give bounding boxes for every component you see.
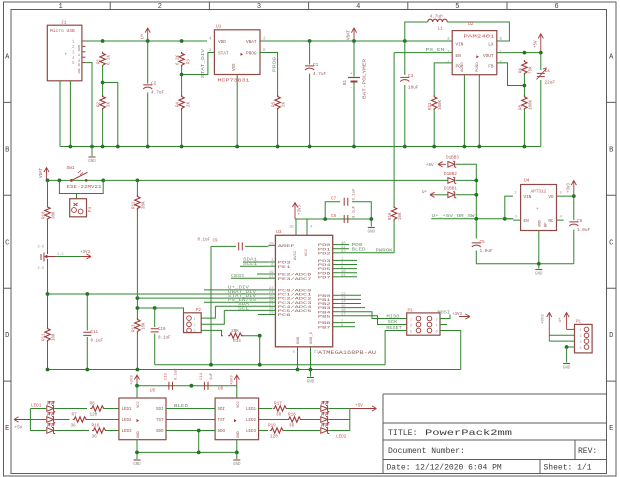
wire C11 top [86,294,88,331]
junction LED gnd right [235,451,239,455]
junction P4 left [58,179,62,183]
svg-text:1.0uF: 1.0uF [577,228,591,233]
wire P2 pin3 to R14 [201,330,223,335]
capacitor C5 1.0uF [472,243,481,247]
supply arrow U+ at P1 [564,313,569,330]
junction U4 GND [537,262,541,266]
junction VBAT/C1 [308,39,312,43]
svg-text:AVCC: AVCC [294,250,298,260]
capacitor C7 0.1uF [344,198,348,206]
svg-text:20K: 20K [231,329,239,334]
svg-text:+5V: +5V [426,164,434,168]
resistor R17 30 [273,406,288,411]
svg-text:1: 1 [194,318,196,322]
diode D1BB3 [448,161,456,167]
junction C10 top [153,306,157,310]
svg-text:BLED: BLED [174,403,188,409]
svg-text:+3V3: +3V3 [452,313,463,317]
svg-text:PE3/ADC7: PE3/ADC7 [278,277,313,282]
svg-text:LED2: LED2 [336,435,347,440]
wire J1 shield left to rail [59,81,61,147]
resistor R3 6.2K [179,52,184,67]
svg-text:22uF: 22uF [545,81,556,86]
svg-text:36: 36 [71,424,77,429]
wire UBAT_DIV long row [48,293,269,295]
svg-text:R1: R1 [98,58,102,64]
svg-text:GND: GND [237,430,241,438]
node VBAT supply arrow [351,28,356,41]
svg-text:MISO: MISO [387,313,400,319]
wire C4 top [540,53,542,70]
capacitor C14 1uF [204,382,208,390]
svg-text:VCC: VCC [137,400,141,408]
svg-text:R16: R16 [389,212,393,220]
wire C10 upper [154,308,156,327]
supply arrow +5V at diodes [438,162,446,167]
wire P4 bypass [59,180,103,193]
svg-text:VBAT: VBAT [348,29,352,40]
svg-text:+3V3: +3V3 [131,375,135,385]
wire LED2 to R7 [55,419,70,421]
junction busA AREF vert [209,363,213,367]
wire C3 bottom to rail [404,85,406,147]
wire C4 bottom to ground rail [540,80,542,147]
wire +3V3 LED rail [137,385,237,387]
svg-text:AGND: AGND [461,62,465,72]
svg-text:4: 4 [356,3,360,11]
wire PB5 to SCK [340,316,407,325]
junction P4 right [101,179,105,183]
wire AREF cap row [211,245,236,247]
LED D7 [321,417,329,423]
supply arrow +3V3 at LDO [571,181,576,197]
junction P1 gnd [565,345,569,349]
MCU U3 ATMEGA168PB-AU [275,235,332,346]
svg-text:VCC: VCC [237,400,241,408]
svg-text:LED3: LED3 [246,430,257,434]
junction VOUT/C4 [539,51,543,55]
svg-text:C9: C9 [213,240,219,244]
svg-text:+: + [536,207,539,212]
svg-text:2-S: 2-S [38,267,44,271]
wire SDO drop [198,431,200,453]
svg-text:0.1uF: 0.1uF [158,337,171,341]
junction C8 right [369,217,373,221]
svg-text:VIN: VIN [524,195,532,200]
junction R3/R4 node [180,73,184,77]
wire PD3-PD7 stubs [340,259,357,261]
wire T1 drain down [47,263,49,294]
wire P4 stub [76,194,78,199]
svg-text:PGND: PGND [476,62,480,72]
capacitor C6 1.0uF [569,222,578,226]
svg-text:D-: D- [78,52,81,56]
junction VBUS/R1 [101,39,105,43]
wire LED right bus [329,408,350,410]
wire LED row1 left [30,408,46,410]
svg-text:20: 20 [269,243,274,247]
svg-text:MOSI: MOSI [438,311,451,316]
wire PB6 stub [340,322,355,324]
svg-text:LX: LX [488,43,494,48]
supply arrow +5V right [350,406,377,411]
svg-text:100K: 100K [439,99,443,110]
wire AVCC stub [295,219,297,229]
supply arrow +3V3 at U6 [234,375,239,386]
svg-text:21: 21 [314,351,319,355]
svg-text:1: 1 [58,3,62,11]
diode D1BB2 [448,177,456,183]
svg-text:VIN: VIN [456,43,464,48]
resistor R4 2K [179,95,184,110]
wire node to C10 [137,307,154,309]
resistor R1 6.2K [100,52,105,67]
wire P3 pin6 to ground bus [440,331,461,370]
junction ground rail [116,145,120,149]
svg-text:36: 36 [92,435,98,440]
wire U4 GND down [538,231,540,264]
wire R5 to ground rail [277,109,279,147]
svg-text:D1BB1: D1BB1 [444,187,457,192]
wire U5-U6 row2 [166,419,215,421]
svg-text:C5: C5 [480,240,486,245]
svg-text:LED2: LED2 [122,419,133,423]
wire U2 FB to divider [497,63,525,86]
junction ground rail [276,145,280,149]
wire U6 VCC stub [236,386,238,398]
wire R17 to LED [287,408,320,410]
resistor R21 100K [432,95,437,110]
resistor R11 10K [45,327,50,342]
svg-text:R11: R11 [43,333,47,341]
svg-text:SW1: SW1 [67,166,75,171]
svg-text:+5V: +5V [355,403,363,408]
resistor R16 10K [391,206,396,221]
svg-text:D: D [5,332,9,340]
resistor R5 2K [275,95,280,110]
wire D1BB1 out [456,194,476,196]
junction ground rail [69,145,73,149]
wire R15 to U5 [106,430,119,432]
junction VBUS/C2 [146,39,150,43]
svg-text:75K: 75K [530,66,534,74]
svg-text:6.2K: 6.2K [108,54,112,65]
svg-text:Date: 12/12/2020 6:04 PM: Date: 12/12/2020 6:04 PM [387,464,502,473]
resistor R6 75K [522,60,527,75]
wire B1 top [353,41,355,77]
svg-text:E: E [5,425,9,433]
svg-text:P3: P3 [408,309,414,313]
svg-text:C6: C6 [577,219,583,224]
svg-text:0.1uF: 0.1uF [175,368,179,380]
svg-text:5: 5 [410,330,412,334]
svg-text:VCC: VCC [305,248,309,256]
resistor R10 30K [45,205,50,220]
svg-text:MCP73831: MCP73831 [218,78,250,84]
wire C6 bottom [573,230,575,264]
svg-text:C13: C13 [165,372,169,380]
junction ground rail [477,145,481,149]
wire LED3 to R15 [55,430,90,432]
wire R11 top [47,294,49,328]
junction busB MCU GND2 [309,368,313,372]
wire to U4 VIN [505,196,513,219]
svg-text:R19: R19 [268,424,276,429]
connector P1 [575,324,593,353]
svg-text:D1BB2: D1BB2 [444,172,457,177]
wire C1 bottom [309,74,311,147]
svg-text:R4: R4 [177,101,181,107]
svg-text:2: 2 [194,324,196,328]
junction R12R13 row [136,296,140,300]
resistor R6 120 led [90,406,105,411]
wire U6 row2 to R18 [259,419,288,421]
svg-text:10K: 10K [143,322,147,330]
MCU bottom pin stubs [298,347,311,370]
svg-text:LED2: LED2 [246,419,257,423]
wire switched rail to D1BB2 [446,179,448,181]
junction ground rail [308,145,312,149]
svg-text:ATMEGA168PB-AU: ATMEGA168PB-AU [318,349,376,356]
supply arrow +3V3 at MCU [292,203,297,220]
supply arrow +3V3 at T1 [82,254,91,259]
capacitor C9 0.1uF [239,242,243,250]
wire C1 top [309,41,311,65]
svg-text:SCL: SCL [238,305,249,311]
svg-text:R3: R3 [188,58,192,64]
svg-text:GND: GND [88,160,96,164]
svg-text:36: 36 [289,424,295,429]
svg-text:VSS: VSS [233,63,237,71]
junction busB R11 [46,368,50,372]
wire C10 lower to busA [154,334,156,365]
svg-text:Sheet: 1/1: Sheet: 1/1 [544,464,592,473]
svg-text:3: 3 [410,324,412,328]
wire B1 bottom to ground rail [353,83,355,147]
wire R1 to R2 [102,66,104,96]
svg-text:P4: P4 [89,206,93,212]
svg-text:100K: 100K [530,99,534,110]
svg-text:RESET: RESET [386,325,402,331]
svg-text:D+: D+ [78,58,81,62]
svg-text:PE1: PE1 [278,266,292,270]
junction R14 node [258,334,262,338]
junction ground rail [463,145,467,149]
wire P2 pin1 to SDA [201,306,215,318]
wire C6 top [573,196,575,220]
junction ground rail [523,145,527,149]
svg-text:E: E [609,425,613,433]
svg-text:TITLE:: TITLE: [388,429,417,438]
svg-text:NC: NC [548,219,554,224]
node +5V supply arrow [538,34,543,53]
svg-text:R13: R13 [133,324,137,332]
MCU right pins [333,244,340,246]
svg-text:U3: U3 [276,229,282,235]
junction R1/R2 node [101,81,105,85]
wire R4 to ground rail [181,109,183,147]
switch SW1 ESE-22MV21 [70,179,73,182]
connector J1 Micro USB [47,25,82,81]
wire U+_+5V_OR_SW net [431,218,513,220]
svg-text:4.7uF: 4.7uF [151,91,165,96]
svg-text:VOUT: VOUT [483,54,494,59]
ground symbol under rail [91,147,93,157]
svg-text:BLED: BLED [352,246,366,252]
wire R3 to R4 node [181,66,183,96]
svg-text:GND: GND [297,336,301,344]
svg-text:1: 1 [580,329,582,333]
wire U2 PGND to ground rail [478,75,480,147]
wire tap to x118 [103,83,118,147]
svg-text:18: 18 [289,226,294,230]
wire BLED stub [340,248,349,250]
connector P2 [184,313,202,333]
junction D1BB1 [474,193,478,197]
wire LED1 to R6a [55,408,88,410]
svg-text:5: 5 [455,3,459,11]
svg-text:2: 2 [580,335,582,339]
svg-text:R10: R10 [43,211,47,219]
wire U5-U6 row3 [166,430,215,432]
resistor R18 36 [287,417,302,422]
svg-text:120: 120 [90,413,98,418]
svg-text:GND_2: GND_2 [310,331,314,344]
svg-text:C14: C14 [200,372,204,380]
svg-text:30: 30 [276,413,282,418]
LED D3 [47,406,55,412]
wire U2 PG to R21 [434,63,452,96]
wire C2 bottom [147,93,149,147]
svg-text:R14: R14 [233,339,241,344]
svg-text:BP: BP [545,222,549,227]
ground symbol at MCU VCC [370,219,372,227]
supply arrow U+ at diode [430,192,436,197]
capacitor C8 0.1uF [325,218,371,220]
junction VBAT/B1 [352,39,356,43]
svg-text:PB7: PB7 [318,326,332,330]
wire R12 to node [136,209,138,319]
capacitor C4 22uF [537,73,545,76]
wire VCC rail [295,218,371,220]
svg-text:2K: 2K [108,101,112,107]
node VBAT arrow at switch [44,168,49,181]
wire C11 bottom [86,337,88,370]
svg-text:+3V3: +3V3 [542,314,546,324]
wire pin19 stub [257,273,268,275]
svg-text:C8: C8 [331,215,337,219]
wire P3 pin4 stub [440,324,447,326]
svg-text:GND: GND [539,219,543,227]
junction busB R13 [136,368,140,372]
wire U4 EN [505,218,513,220]
svg-text:AP7312: AP7312 [531,189,547,194]
connector P3 ISP [407,313,440,335]
wire LED row2 left [30,419,46,421]
wire D1BB3 out [456,164,476,238]
junction busA R14 [258,363,262,367]
wire R6a to U5 [104,408,119,410]
wire SDA1 row [243,261,268,263]
supply arrow +3V3 at P1 [547,313,552,342]
svg-text:0.1uF: 0.1uF [353,205,357,218]
wire STAT_DIV to U1 STAT [182,53,215,75]
svg-text:11: 11 [341,274,346,278]
wire P1 gnd down [566,347,568,363]
capacitor C1 4.7uF [305,66,314,70]
svg-text:LED1: LED1 [246,408,257,412]
junction R12 tap [136,179,140,183]
svg-text:2: 2 [436,318,438,322]
wire switched power rail SW1 to D1BB2 [47,179,447,181]
junction busB MCU GND [296,368,300,372]
wire U1 PROG [260,53,278,97]
svg-text:R7: R7 [72,413,78,418]
wire L1 loop [405,22,428,41]
svg-text:4.7uF: 4.7uF [313,72,327,77]
wire PS_EN vertical [393,53,395,207]
wire ground bus A [155,364,385,366]
svg-text:GND: GND [78,68,81,73]
svg-text:SDI: SDI [156,408,164,412]
svg-text:PD7: PD7 [318,276,332,280]
wire LED ground link [137,451,237,453]
svg-text:LED3: LED3 [122,430,133,434]
svg-text:VBAT: VBAT [40,167,44,178]
LED D8 [321,428,329,434]
junction divider node [136,306,140,310]
svg-text:LED1: LED1 [122,408,133,412]
svg-text:4: 4 [580,347,582,351]
wire R2 to ground rail [102,109,104,147]
wire U1 VSS to ground rail [236,75,238,147]
svg-text:B: B [5,146,9,154]
svg-text:U5: U5 [150,389,156,394]
wire PB4 to MISO [340,312,407,319]
svg-text:ID: ID [78,63,81,67]
svg-text:Document Number:: Document Number: [388,447,465,456]
svg-text:4.7uH: 4.7uH [430,15,444,20]
resistor R13 10K [135,318,140,333]
wire R13 bottom [136,332,138,370]
svg-text:R6: R6 [90,402,96,407]
junction ground rail [235,145,239,149]
svg-text:3-D: 3-D [38,246,44,250]
svg-text:REV:: REV: [578,447,597,456]
wire C7 loop [325,202,340,219]
wire P1 pin4 [567,346,575,348]
svg-text:6: 6 [436,330,438,334]
svg-text:R5: R5 [273,101,277,107]
svg-text:STAT_DIV: STAT_DIV [200,49,206,78]
wire PS_EN/VS row [204,301,268,303]
svg-text:SDI: SDI [218,408,226,412]
wire VBUS from J1 pin1 to U1 VDD [86,40,208,42]
svg-text:U2: U2 [468,21,474,27]
junction ground rail [101,145,105,149]
svg-text:P1: P1 [576,320,582,324]
svg-text:C3: C3 [408,74,414,79]
svg-text:GND: GND [233,463,241,467]
svg-text:R17: R17 [274,402,282,407]
svg-text:GND: GND [307,381,315,385]
svg-text:SCL1: SCL1 [243,261,257,267]
svg-text:J1: J1 [61,20,67,26]
junction ground rail [90,145,94,149]
wire P3 MOSI stub [440,315,450,319]
IC U4 LDO AP7312 [521,185,557,231]
wire R8 to ground rail [523,109,525,146]
